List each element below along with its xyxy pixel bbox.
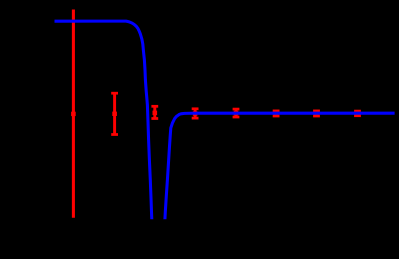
error bar 7 [313,111,320,116]
marker point 2 [112,112,117,116]
marker point 1 [71,112,76,116]
error bar 6 [273,111,280,116]
error bar 5 [233,109,240,117]
error bar 4 [192,109,199,118]
error bar 3 [151,106,158,118]
error bar 1 (clipped, no caps) [72,10,75,218]
error bar 2 [111,93,118,134]
marker point 6 [274,111,279,115]
marker point 3 [153,111,158,115]
marker point 8 [355,111,360,115]
marker point 4 [193,111,198,115]
blue curve [55,21,395,250]
marker point 5 [234,111,239,115]
error bar 8 [354,111,361,116]
marker point 7 [314,111,319,115]
